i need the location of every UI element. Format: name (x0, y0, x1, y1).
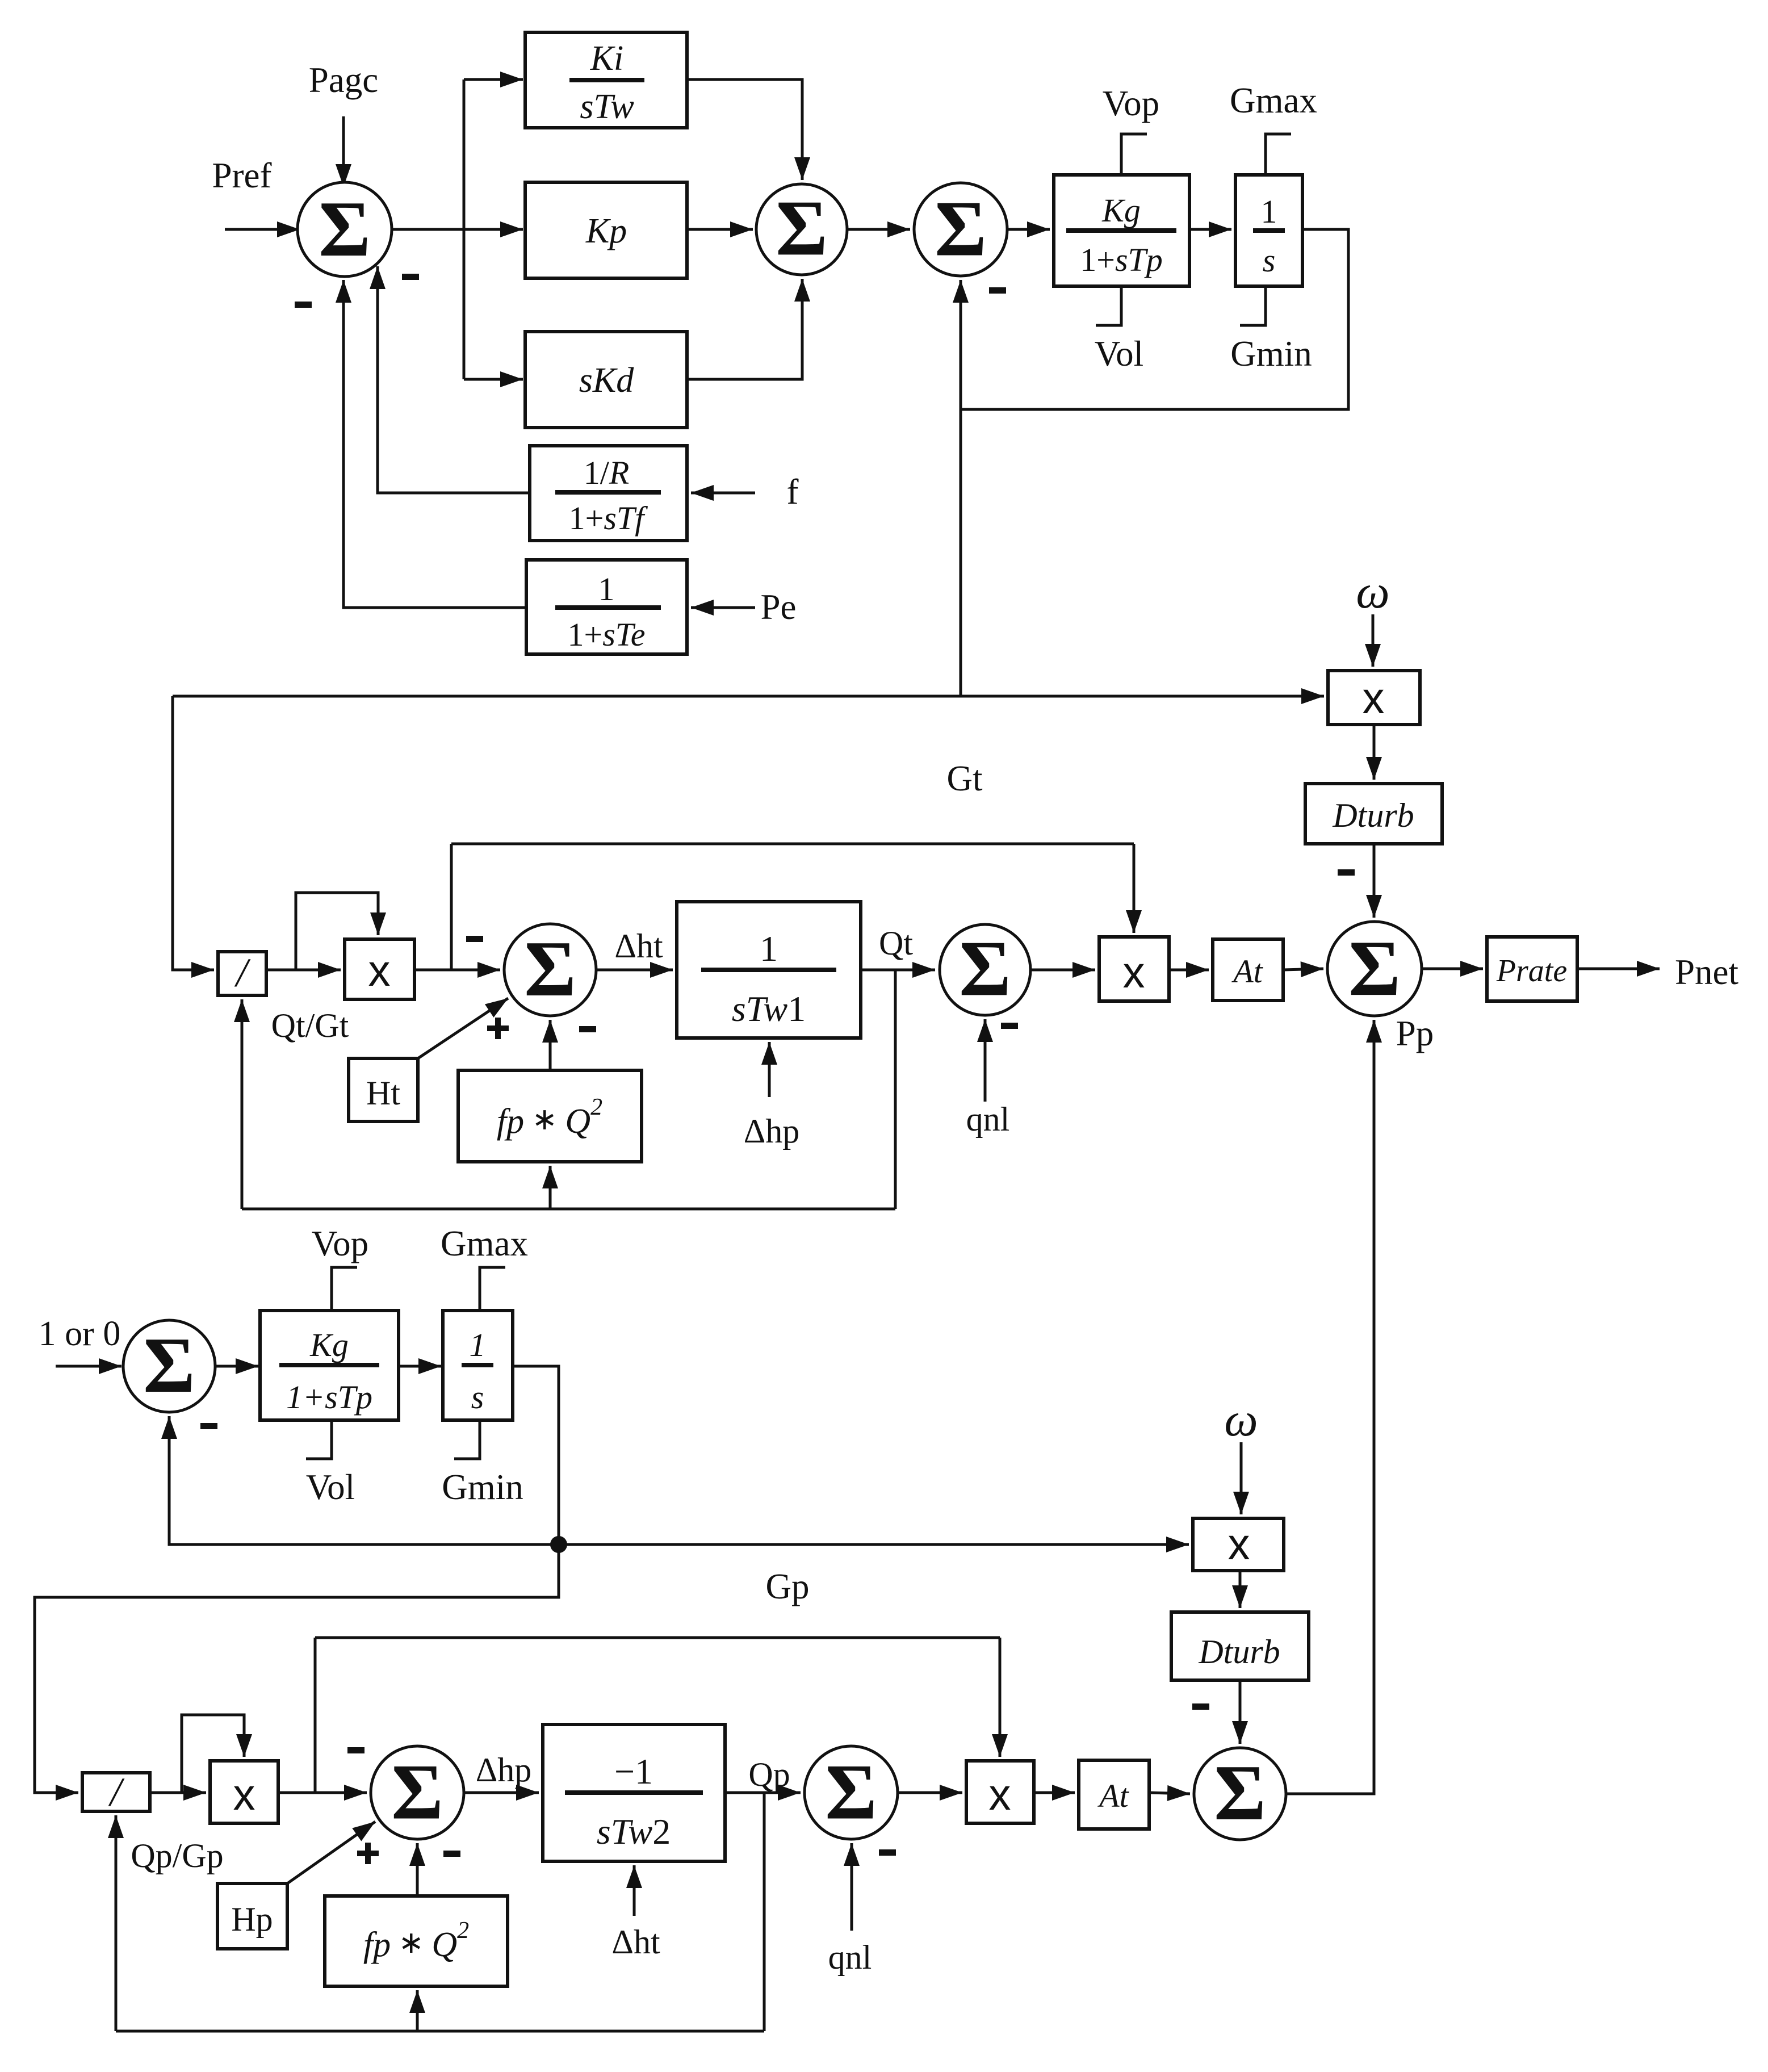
summing junction S5 (mechanical power) (1327, 922, 1422, 1016)
wire S3 to Kg block (1007, 228, 1050, 231)
svg-text:Gt: Gt (947, 759, 983, 798)
block multiplier M4 (Gp x omega) (1193, 1518, 1284, 1571)
minus sign at S4 head input (466, 936, 483, 942)
svg-text:Pref: Pref (212, 156, 272, 195)
wire f input arrow into droop block (691, 492, 755, 495)
summing junction S9 (Qp - qnl) (805, 1746, 898, 1839)
svg-text:Pagc: Pagc (309, 60, 378, 100)
wire -1/sTw2 output Qp to summing junction S9 (725, 1791, 801, 1794)
svg-text:Vop: Vop (312, 1224, 368, 1263)
svg-text:Σ: Σ (1214, 1749, 1266, 1837)
svg-text:Gmax: Gmax (441, 1224, 528, 1263)
block sKd derivative gain (525, 332, 687, 428)
limit Gmax upper bracket on pump 1/s (480, 1267, 505, 1311)
wire droop feedback to S1 (378, 266, 530, 493)
wire Dturb arrow into summing junction S5 (1373, 844, 1376, 918)
svg-text:Vol: Vol (306, 1467, 355, 1507)
svg-text:ω: ω (1224, 1393, 1258, 1446)
svg-text:Σ: Σ (959, 924, 1011, 1012)
svg-text:Σ: Σ (391, 1748, 443, 1836)
minus sign at S1 droop input (402, 274, 419, 280)
wire Hp slanted arrow into S8 (287, 1822, 375, 1883)
wire turbine loop bottom from D1 up (241, 999, 244, 1209)
svg-text:Qt: Qt (879, 924, 913, 962)
minus sign at S4 loss input (579, 1026, 596, 1032)
svg-text:Qp: Qp (748, 1756, 790, 1793)
svg-text:Kg: Kg (309, 1326, 349, 1363)
svg-text:x: x (233, 1769, 255, 1819)
wire At arrow into S5 (1283, 969, 1323, 970)
svg-text:−1: −1 (614, 1751, 653, 1791)
wire Ki/sTw output to summing junction S2 (687, 79, 802, 180)
svg-text:Qp/Gp: Qp/Gp (131, 1837, 223, 1874)
wire Gt bus down-left to divider D1 (173, 696, 214, 970)
wire pump fp*Q^2 arrow into S8 (416, 1843, 419, 1896)
svg-text:Hp: Hp (231, 1901, 273, 1938)
wire squaring loop from D1 output into M2 top (296, 893, 378, 970)
svg-text:qnl: qnl (966, 1100, 1010, 1138)
wire Pagc arrow into summing junction S1 (342, 116, 345, 187)
plus sign at S4 Ht input (487, 1025, 509, 1031)
wire turbine loop bottom horizontal (242, 1208, 895, 1211)
block multiplier M6 (pump flow x head) (966, 1761, 1034, 1823)
block divider D2 (Qp/Gp) (82, 1773, 150, 1811)
svg-text:1/R: 1/R (584, 454, 630, 491)
wire arrow into Ki/sTw block (464, 78, 523, 81)
wire omega arrow into multiplier M4 (1240, 1442, 1243, 1514)
svg-text:ω: ω (1356, 566, 1389, 618)
svg-text:1: 1 (470, 1326, 486, 1363)
svg-text:1 or 0: 1 or 0 (39, 1315, 121, 1353)
svg-text:1+sTe: 1+sTe (568, 616, 646, 653)
svg-text:sTw: sTw (580, 87, 634, 126)
block 1/(1+sTe) electrical power filter (526, 560, 687, 654)
block multiplier M5 (pump head) (210, 1761, 278, 1823)
svg-text:At: At (1231, 953, 1263, 990)
block 1/R/(1+sTf) droop (530, 446, 687, 541)
wire Gt bus horizontal to multiplier M1 (173, 695, 1324, 698)
wire S5 to Prate block (1422, 968, 1483, 970)
svg-text:1+sTf: 1+sTf (569, 500, 648, 537)
wire pump loop bottom horizontal (116, 2030, 764, 2033)
svg-text:f: f (787, 472, 799, 512)
wire D1 output to multiplier M2 (266, 969, 341, 972)
block divider D1 (Qt/Gt) (218, 952, 266, 995)
limit Vop upper bracket on Kg block (1121, 134, 1147, 175)
wire pump Kg to 1/s (399, 1365, 441, 1368)
svg-text:Dturb: Dturb (1332, 797, 1414, 834)
wire pump head feedback horizontal (315, 1636, 1000, 1639)
minus sign at S6 qnl input (1001, 1023, 1018, 1029)
svg-text:1+sTp: 1+sTp (286, 1379, 372, 1416)
summing junction S4 (head balance) (504, 924, 596, 1016)
svg-text:x: x (989, 1769, 1011, 1819)
svg-text:sTw2: sTw2 (597, 1811, 671, 1852)
block fp*Q^2 penstock loss (pump) (325, 1896, 508, 1986)
block multiplier M1 (Gt x omega) (1328, 671, 1420, 725)
node Gp junction dot (550, 1536, 567, 1553)
block Kg/(1+sTp) gate servo (1054, 175, 1189, 286)
block 1/s pump gate integrator (443, 1311, 513, 1420)
wire loop tap arrow into fp*Q^2 bottom (549, 1166, 552, 1209)
svg-text:Σ: Σ (319, 185, 371, 273)
svg-text:Prate: Prate (1496, 953, 1567, 989)
wire S10 output up into S5 (Pp) (1286, 1020, 1374, 1794)
wire M1 to Dturb (1373, 725, 1376, 780)
svg-text:1: 1 (598, 571, 615, 608)
wire Gp feedback left and up into S7 (169, 1416, 559, 1544)
minus sign at S3 feedback input (989, 287, 1006, 294)
wire S8 arrow into -1/sTw2 (464, 1791, 539, 1794)
wire S4 arrow into 1/sTw1 (596, 969, 673, 972)
minus sign at S8 head input (347, 1747, 365, 1753)
svg-text:s: s (471, 1379, 484, 1416)
svg-text:Σ: Σ (935, 185, 987, 273)
summing junction S2 (PID sum) (756, 184, 847, 275)
svg-text:x: x (1123, 947, 1145, 997)
svg-text:Σ: Σ (143, 1321, 195, 1409)
summing junction S10 (pump power) (1194, 1748, 1286, 1840)
svg-text:x: x (1363, 673, 1385, 723)
svg-text:1+sTp: 1+sTp (1080, 241, 1163, 278)
svg-text:1: 1 (1261, 193, 1277, 230)
wire Qt tap down to turbine loop bottom (894, 970, 897, 1209)
block -1/sTw2 pump water column (543, 1724, 725, 1861)
limit Vop upper bracket on pump Kg (332, 1267, 357, 1311)
wire branch vertical to Ki and sKd rows (463, 79, 466, 379)
svg-text:Σ: Σ (825, 1748, 877, 1836)
block fp*Q^2 penstock loss (turbine) (458, 1070, 642, 1162)
wire Pref arrow into summing junction S1 (225, 228, 300, 231)
wire Gt feedback from 1/s output down-left to S3 (961, 229, 1348, 409)
block At pump gain (1079, 1760, 1149, 1829)
summing junction S3 (gate servo error) (914, 183, 1007, 276)
block Prate per-unit base (1487, 937, 1577, 1001)
svg-text:Vol: Vol (1095, 334, 1143, 374)
wire head feedback down into S4 path (450, 844, 453, 970)
wire Qp tap down to pump loop bottom (763, 1793, 766, 2031)
wire pump head feedback down into multiplier M6 (999, 1638, 1002, 1757)
wire S2 to S3 (847, 228, 910, 231)
wire qnl arrow into S6 (984, 1019, 987, 1102)
wire Gp bus right into multiplier M4 (559, 1543, 1189, 1546)
wire Gp down-left to pump divider D2 (35, 1544, 559, 1793)
wire M6 to pump At block (1034, 1791, 1075, 1794)
minus sign at S1 Pe input (295, 302, 312, 308)
block 1/s gate integrator (1235, 175, 1302, 286)
wire qnl arrow into S9 (851, 1843, 853, 1931)
wire M2 to summing junction S4 (414, 969, 500, 972)
minus sign at S7 feedback input (200, 1423, 217, 1429)
minus sign at S8 loss input (443, 1851, 460, 1857)
wire Prate arrow to Pnet output (1577, 968, 1660, 970)
block At turbine gain (1213, 939, 1283, 1001)
svg-text:sTw1: sTw1 (732, 989, 806, 1029)
wire Gt tap down from feedback to Gt bus (960, 409, 962, 696)
block Kp proportional gain (525, 182, 687, 278)
block multiplier M3 (flow x head) (1099, 937, 1169, 1001)
wire squaring loop from D2 output into M5 top (182, 1715, 244, 1793)
svg-text:Σ: Σ (524, 925, 576, 1013)
wire omega arrow into multiplier M1 (1372, 614, 1375, 667)
block multiplier M2 (head = (Qt/Gt)^2) (345, 939, 414, 999)
svg-text:s: s (1263, 242, 1276, 279)
svg-text:Σ: Σ (1348, 924, 1401, 1012)
wire pump head feedback down into S8 path (314, 1638, 317, 1793)
svg-text:Δhp: Δhp (476, 1751, 532, 1789)
svg-text:Dturb: Dturb (1198, 1633, 1280, 1671)
wire pump At arrow into S10 (1149, 1793, 1190, 1794)
svg-text:Gp: Gp (766, 1567, 810, 1606)
wire head feedback down into multiplier M3 (1133, 844, 1136, 933)
wire M5 to summing junction S8 (278, 1791, 367, 1794)
minus sign at S9 qnl input (879, 1849, 896, 1856)
svg-text:x: x (368, 945, 391, 995)
wire Pe feedback to S1 (343, 280, 526, 608)
svg-text:Pp: Pp (1396, 1014, 1434, 1053)
svg-text:Δht: Δht (614, 927, 663, 965)
block Dturb turbine damping (1305, 784, 1442, 844)
svg-text:Gmax: Gmax (1230, 81, 1317, 120)
svg-text:Qt/Gt: Qt/Gt (271, 1007, 349, 1044)
wire sKd output to S2 (687, 279, 802, 379)
svg-text:Vop: Vop (1103, 83, 1159, 123)
wire arrow into Kp block (464, 228, 523, 231)
svg-text:At: At (1097, 1777, 1129, 1814)
wire S6 to multiplier M3 (1030, 969, 1095, 972)
wire S7 to Kg pump block (215, 1365, 258, 1368)
wire Kp output arrow to S2 (687, 228, 753, 231)
svg-text:1: 1 (760, 928, 778, 969)
block Dturb pump damping (1171, 1612, 1309, 1680)
svg-text:Pe: Pe (761, 587, 797, 627)
wire Pe input arrow into filter block (691, 606, 755, 609)
svg-text:Gmin: Gmin (1230, 334, 1312, 374)
wire Delta-hp arrow into 1/sTw1 bottom (768, 1042, 771, 1097)
block Hp head reference (217, 1883, 287, 1949)
limit Gmax upper bracket on 1/s block (1266, 134, 1291, 175)
svg-text:x: x (1228, 1519, 1250, 1569)
minus sign at S5 damping input (1338, 869, 1355, 876)
wire pump 1/s output down to Gp node (513, 1366, 559, 1544)
svg-text:Pnet: Pnet (1675, 952, 1739, 992)
block Ki/sTw integral gain (525, 32, 687, 128)
wire D2 output to multiplier M5 (150, 1791, 206, 1794)
wire Delta-ht arrow into -1/sTw2 bottom (633, 1865, 636, 1916)
summing junction S8 (pump head balance) (371, 1746, 464, 1839)
wire pump Dturb arrow into summing junction S10 (1239, 1680, 1242, 1744)
wire S9 to multiplier M6 (898, 1791, 962, 1794)
plus sign at S8 Hp input (357, 1851, 379, 1856)
minus sign at S10 damping input (1192, 1703, 1209, 1710)
wire M4 to pump Dturb (1239, 1571, 1242, 1608)
svg-text:Ht: Ht (366, 1074, 400, 1112)
wire M3 to At block (1169, 969, 1209, 972)
limit Gmin lower bracket on 1/s block (1240, 286, 1266, 325)
svg-text:sKd: sKd (579, 361, 634, 400)
wire arrow into sKd block (464, 378, 523, 381)
svg-text:Ki: Ki (590, 39, 624, 78)
svg-text:qnl: qnl (828, 1939, 872, 1976)
summing junction S6 (Qt - qnl) (940, 924, 1030, 1015)
wire S1 output to branch node (392, 228, 464, 231)
wire 1/sTw1 output Qt to summing junction S6 (861, 969, 935, 972)
wire head feedback horizontal over turbine (451, 843, 1134, 845)
wire Kg to 1/s integrator (1189, 228, 1231, 231)
block Ht head reference (349, 1058, 418, 1121)
wire pump loop bottom from D2 up (115, 1815, 118, 2031)
limit Vol lower bracket on pump Kg (306, 1420, 332, 1459)
svg-text:Δht: Δht (611, 1923, 660, 1961)
wire fp*Q^2 arrow into S4 (549, 1020, 552, 1070)
svg-text:Kg: Kg (1101, 192, 1141, 229)
limit Vol lower bracket on Kg block (1096, 286, 1121, 325)
wire loop tap arrow into pump fp*Q^2 bottom (416, 1990, 419, 2031)
limit Gmin lower bracket on pump 1/s (454, 1420, 480, 1459)
summing junction S1 (Pref+Pagc-f-Pe) (298, 182, 392, 277)
summing junction S7 (pump gate error) (123, 1320, 215, 1412)
svg-text:Δhp: Δhp (744, 1112, 800, 1150)
svg-text:Gmin: Gmin (442, 1467, 523, 1507)
svg-text:Kp: Kp (585, 212, 627, 250)
block Kg/(1+sTp) pump gate servo (260, 1311, 399, 1420)
svg-text:Σ: Σ (776, 184, 828, 272)
wire 1-or-0 arrow into summing junction S7 (56, 1365, 122, 1368)
block 1/sTw1 turbine water column (677, 902, 861, 1038)
wire Ht slanted arrow into S4 (418, 998, 508, 1058)
